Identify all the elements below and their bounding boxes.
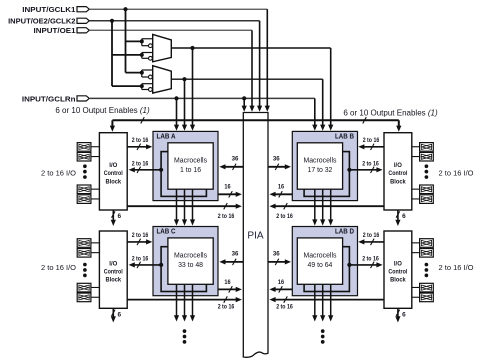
svg-text:36: 36 [232, 251, 239, 258]
node 6 or 10 Output Enables label right [343, 108, 438, 117]
I/O cell r231-2 [412, 249, 434, 258]
wire GCLRn to LAB A / LAB B [174, 96, 318, 131]
mux M2 [153, 66, 172, 93]
I/O cell l133-3 [77, 185, 99, 194]
wire mux M2 output to LAB A / LAB B [171, 77, 325, 131]
svg-text:33 to 48: 33 to 48 [178, 262, 203, 269]
wire GCLK1 into PIA [265, 9, 270, 112]
svg-text:6: 6 [118, 213, 122, 220]
svg-text:Block: Block [106, 277, 122, 284]
mux M1 [153, 34, 172, 61]
wire LAB C outputs down [174, 284, 195, 321]
mux M1 input fork from GCLK2 [112, 53, 153, 61]
svg-text:Control: Control [104, 170, 123, 177]
LAB A box [153, 131, 218, 200]
I/O cell l133-2 [77, 152, 99, 161]
input pin INPUT/OE1 [34, 26, 90, 35]
svg-text:Control: Control [388, 269, 407, 276]
node 2 to 16 I/O label [439, 169, 474, 178]
wire 36: PIA to LAB [219, 156, 243, 170]
I/O Control Block r231 [384, 231, 412, 308]
ellipsis below LAB D [321, 329, 325, 344]
I/O cell r133-1 [412, 143, 434, 152]
svg-text:2 to 16: 2 to 16 [362, 256, 379, 263]
LAB B macrocells box [297, 143, 342, 189]
svg-text:Block: Block [390, 277, 406, 284]
ellipsis below LAB C [183, 329, 187, 344]
mux M2 input fork from GCLK1 [126, 70, 153, 79]
LAB A macrocells box [168, 143, 213, 189]
svg-text:Macrocells: Macrocells [303, 253, 337, 260]
svg-text:2 to 16: 2 to 16 [132, 160, 149, 167]
wire GCLK2 horizontal [89, 20, 259, 22]
wire 2 to 16: I/O block to LAB [127, 137, 152, 150]
wire GCLK1 drop to muxes [123, 7, 127, 73]
mux M2 input fork from GCLK2 [112, 84, 153, 92]
LAB D expander shadow box [304, 247, 349, 292]
wire 2 to 16: I/O block to LAB [127, 232, 152, 245]
I/O cell r231-1 [412, 239, 434, 248]
svg-text:36: 36 [273, 156, 280, 163]
svg-text:36: 36 [232, 156, 239, 163]
wire 36: PIA to LAB [268, 156, 291, 170]
svg-text:16: 16 [224, 279, 231, 286]
input pin INPUT/GCLRn [22, 94, 89, 103]
svg-text:6: 6 [118, 311, 122, 318]
I/O cell r133-2 [412, 152, 434, 161]
wire 2 to 16: LAB to I/O block [347, 256, 382, 269]
I/O cells ellipsis [83, 263, 87, 278]
input pin INPUT/OE2/GCLK2 [8, 17, 89, 26]
I/O cell l231-1 [77, 239, 99, 248]
PIA block [243, 113, 268, 358]
wire mux M1 output to LAB A / LAB B [171, 46, 333, 131]
svg-text:6 or 10 Output Enables (1): 6 or 10 Output Enables (1) [343, 108, 438, 117]
wire GCLRn horizontal [90, 97, 315, 99]
wire GCLK2 into PIA [257, 21, 262, 112]
svg-text:6 or 10 Output Enables (1): 6 or 10 Output Enables (1) [55, 106, 150, 115]
svg-text:36: 36 [273, 251, 280, 258]
svg-text:I/O: I/O [109, 162, 117, 169]
node 2 to 16 I/O label [41, 263, 76, 272]
wire 16: LAB to PIA [218, 279, 242, 293]
wire LAB A to LAB C expanders [174, 189, 195, 225]
svg-text:2 to 16: 2 to 16 [276, 213, 293, 220]
I/O cell l231-2 [77, 249, 99, 258]
svg-text:INPUT/GCLK1: INPUT/GCLK1 [22, 5, 76, 14]
svg-text:6: 6 [402, 311, 406, 318]
wire 2 to 16: I/O block to PIA [269, 203, 384, 220]
I/O cell l231-4 [77, 293, 99, 302]
svg-text:6: 6 [402, 213, 406, 220]
svg-text:INPUT/OE1: INPUT/OE1 [34, 26, 77, 35]
wire 2 to 16: I/O block to LAB [358, 137, 384, 150]
wire 2 to 16: I/O block to PIA [127, 296, 242, 310]
I/O cell l133-4 [77, 195, 99, 204]
svg-text:2 to 16: 2 to 16 [362, 160, 379, 167]
svg-text:INPUT/GCLRn: INPUT/GCLRn [22, 94, 76, 103]
wire OE1 into PIA [249, 30, 254, 112]
node 2 to 16 I/O label [439, 263, 474, 272]
svg-text:2 to 16 I/O: 2 to 16 I/O [439, 263, 474, 272]
LAB C box [153, 227, 218, 296]
LAB D box [292, 227, 357, 296]
I/O Control Block l231 [99, 231, 127, 308]
svg-text:2 to 16: 2 to 16 [363, 232, 380, 239]
wire LAB B to LAB D expanders [312, 189, 333, 225]
I/O cell r231-4 [412, 293, 434, 302]
svg-text:INPUT/OE2/GCLK2: INPUT/OE2/GCLK2 [8, 17, 75, 26]
wire 2 to 16: LAB to I/O block [347, 160, 382, 173]
wire 6: right top I/O block OE [395, 210, 406, 226]
svg-text:2 to 16: 2 to 16 [218, 304, 235, 311]
svg-text:LAB A: LAB A [157, 134, 176, 141]
svg-text:Block: Block [106, 178, 122, 185]
wire 16: LAB to PIA [269, 279, 292, 293]
wire output enable bus [110, 117, 402, 132]
LAB C macrocells box [168, 238, 213, 284]
I/O cell r133-4 [412, 195, 434, 204]
svg-text:Block: Block [390, 178, 406, 185]
I/O cell r133-3 [412, 185, 434, 194]
svg-text:LAB C: LAB C [157, 229, 176, 236]
svg-text:2 to 16 I/O: 2 to 16 I/O [439, 169, 474, 178]
svg-text:2 to 16: 2 to 16 [363, 137, 380, 144]
svg-text:Macrocells: Macrocells [303, 157, 337, 164]
I/O cell l133-1 [77, 143, 99, 152]
input pin INPUT/GCLK1 [22, 5, 89, 14]
wire 6: left top I/O block OE [111, 210, 122, 226]
svg-text:16: 16 [278, 184, 285, 191]
svg-text:2 to 16: 2 to 16 [132, 232, 149, 239]
svg-text:I/O: I/O [394, 260, 402, 267]
I/O Control Block r133 [384, 133, 412, 210]
wire GCLK2 drop to muxes [110, 19, 114, 86]
wire GCLK1 horizontal [89, 8, 267, 10]
svg-text:17 to 32: 17 to 32 [307, 167, 332, 174]
I/O Control Block l133 [99, 133, 127, 210]
wire OE1 horizontal [89, 29, 252, 31]
wire 6: right bottom I/O block OE [395, 308, 406, 322]
I/O cells ellipsis [425, 263, 429, 278]
wire 2 to 16: I/O block to PIA [127, 203, 242, 220]
svg-text:I/O: I/O [109, 260, 117, 267]
wire 2 to 16: LAB to I/O block [129, 160, 164, 173]
wire LAB D outputs down [312, 284, 333, 321]
node 2 to 16 I/O label [41, 169, 76, 178]
svg-text:2 to 16: 2 to 16 [132, 137, 149, 144]
wire 36: PIA to LAB [219, 251, 243, 265]
svg-text:Control: Control [104, 269, 123, 276]
svg-text:Macrocells: Macrocells [174, 253, 208, 260]
svg-text:2 to 16 I/O: 2 to 16 I/O [41, 169, 76, 178]
svg-text:16: 16 [224, 184, 231, 191]
wire GCLRn into PIA [242, 96, 247, 112]
wire 2 to 16: I/O block to LAB [358, 232, 384, 245]
wire 16: LAB to PIA [269, 184, 292, 198]
LAB D macrocells box [297, 238, 342, 284]
svg-text:2 to 16: 2 to 16 [276, 304, 293, 311]
svg-text:LAB B: LAB B [335, 134, 354, 141]
svg-text:49 to 64: 49 to 64 [307, 262, 332, 269]
svg-text:PIA: PIA [247, 229, 263, 241]
wire 2 to 16: I/O block to PIA [269, 296, 384, 310]
LAB A expander shadow box [161, 152, 206, 197]
I/O cells ellipsis [425, 164, 429, 179]
svg-text:Control: Control [388, 170, 407, 177]
mux M1 input fork from GCLK1 [126, 39, 153, 48]
node 6 or 10 Output Enables label left [55, 106, 150, 115]
I/O cell l231-3 [77, 283, 99, 292]
LAB B expander shadow box [304, 152, 349, 197]
I/O cell r231-3 [412, 283, 434, 292]
svg-text:1 to 16: 1 to 16 [180, 167, 201, 174]
svg-text:16: 16 [278, 279, 285, 286]
svg-text:LAB D: LAB D [335, 229, 354, 236]
LAB B box [292, 131, 357, 200]
wire 36: PIA to LAB [268, 251, 291, 265]
wire 2 to 16: LAB to I/O block [129, 256, 164, 269]
svg-text:Macrocells: Macrocells [174, 157, 208, 164]
svg-text:I/O: I/O [394, 162, 402, 169]
svg-text:2 to 16: 2 to 16 [132, 256, 149, 263]
wire 16: LAB to PIA [218, 184, 242, 198]
svg-text:2 to 16 I/O: 2 to 16 I/O [41, 263, 76, 272]
I/O cells ellipsis [83, 164, 87, 179]
svg-text:2 to 16: 2 to 16 [218, 213, 235, 220]
wire 6: left bottom I/O block OE [111, 308, 122, 322]
LAB C expander shadow box [161, 247, 206, 292]
